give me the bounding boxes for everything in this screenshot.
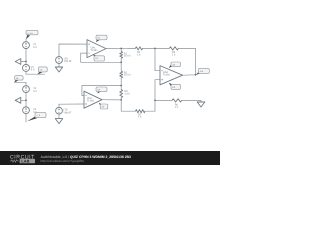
svg-text:out: out (200, 70, 204, 73)
svg-text:v_in+: v_in+ (27, 32, 33, 35)
svg-text:TL081: TL081 (91, 49, 99, 52)
svg-text:5 V: 5 V (33, 90, 37, 93)
svg-text:TL081: TL081 (163, 74, 171, 77)
svg-text:TL081: TL081 (87, 100, 95, 103)
svg-text:10.0 k: 10.0 k (124, 55, 132, 58)
svg-text:LAB: LAB (21, 158, 29, 163)
svg-text:Y80 AT: Y80 AT (63, 111, 71, 114)
svg-text:5 V: 5 V (33, 46, 37, 49)
svg-text:http://circuitlab.com/c/?jesql: http://circuitlab.com/c/?jesqlzfbv (41, 159, 85, 163)
svg-text:5 V: 5 V (31, 68, 35, 71)
svg-text:Y80 AT: Y80 AT (64, 60, 72, 63)
svg-text:1.0 k: 1.0 k (125, 92, 131, 95)
svg-text:10.0 k: 10.0 k (124, 74, 132, 77)
